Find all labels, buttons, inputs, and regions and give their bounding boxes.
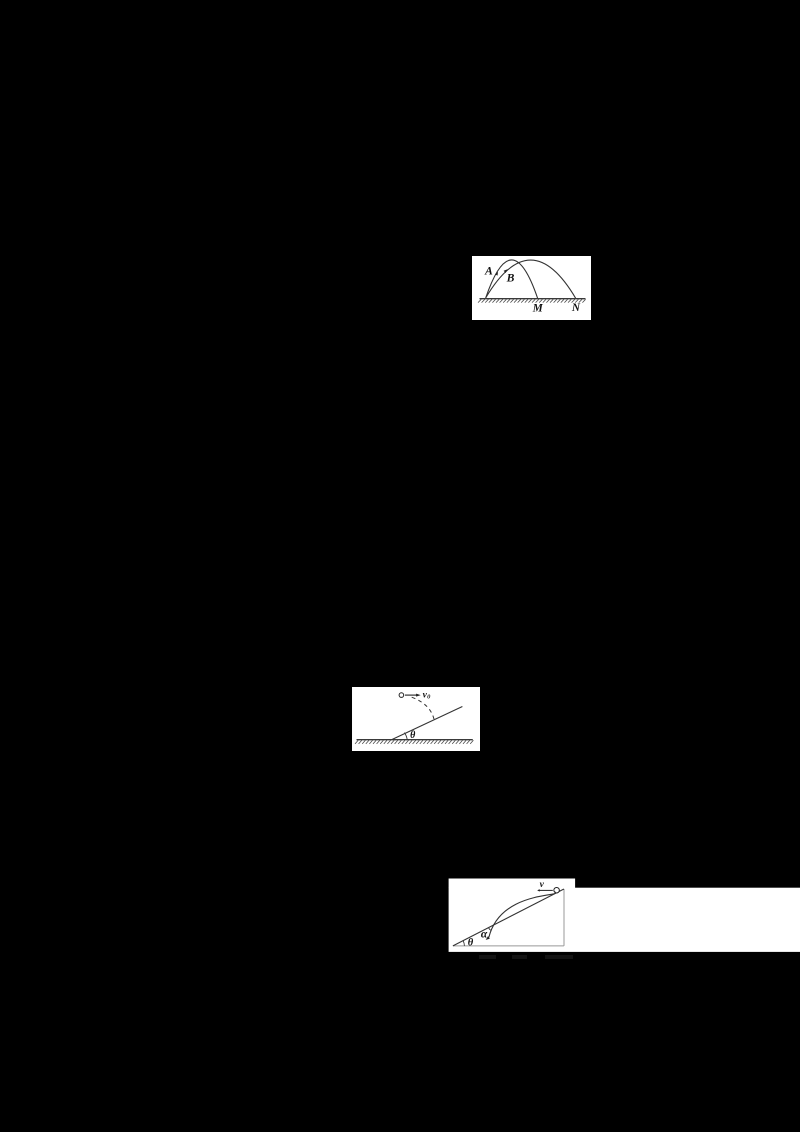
trajectory curve bbox=[489, 892, 556, 938]
trajectory arrowhead bbox=[486, 936, 490, 940]
velocity arrow v0 bbox=[405, 694, 417, 696]
arrow on trajectory A bbox=[495, 272, 498, 276]
triangle right side bbox=[563, 889, 565, 946]
svg-text:A: A bbox=[484, 264, 493, 277]
theta angle arc bbox=[404, 733, 407, 740]
svg-text:N: N bbox=[571, 302, 581, 314]
ground hatching bbox=[478, 299, 586, 302]
ball at top of incline bbox=[554, 887, 560, 893]
ball bbox=[399, 693, 404, 698]
dashed trajectory bbox=[411, 697, 433, 719]
incline bbox=[391, 707, 462, 740]
svg-text:α: α bbox=[481, 929, 488, 941]
figure 2 white background bbox=[352, 687, 480, 751]
svg-text:θ: θ bbox=[468, 938, 474, 949]
svg-text:θ: θ bbox=[410, 730, 415, 741]
velocity arrow v bbox=[540, 889, 553, 891]
figure 3 white background band bbox=[449, 888, 800, 952]
faint text remnant block 2 bbox=[512, 955, 528, 959]
alpha angle arc bbox=[489, 928, 492, 931]
arrow on trajectory B bbox=[503, 269, 507, 273]
faint text remnant block 1 bbox=[479, 955, 496, 959]
incline hypotenuse bbox=[453, 889, 564, 946]
figure 1: two projectile trajectories A and B landing at M and N bbox=[472, 256, 591, 320]
figure 3 white background top strip bbox=[449, 879, 575, 889]
figure 3: ball leaving incline top horizontally with v, trajectory crossing slope, angles theta and alpha bbox=[448, 878, 800, 952]
trajectory A bbox=[485, 260, 537, 299]
figure 1 white background bbox=[472, 256, 591, 320]
ground line bbox=[356, 739, 472, 741]
svg-text:B: B bbox=[505, 271, 514, 284]
trajectory B bbox=[485, 260, 575, 298]
theta angle arc bbox=[463, 941, 464, 946]
svg-text:M: M bbox=[531, 302, 543, 314]
faint text remnant block 3 bbox=[545, 955, 573, 959]
triangle base bbox=[453, 945, 564, 947]
figure 2: ball launched horizontally with v0 toward an incline of angle theta bbox=[352, 687, 480, 751]
ground hatching bbox=[355, 740, 473, 744]
ground line bbox=[479, 297, 585, 299]
